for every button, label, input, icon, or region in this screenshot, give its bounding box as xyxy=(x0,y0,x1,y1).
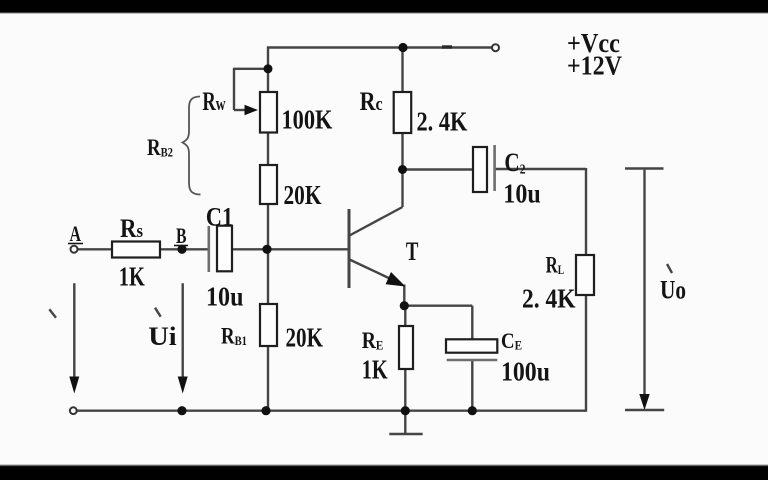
svg-text:Rw: Rw xyxy=(202,87,225,116)
svg-text:2. 4K: 2. 4K xyxy=(417,108,469,137)
svg-text:Ui: Ui xyxy=(148,322,177,351)
svg-text:1K: 1K xyxy=(119,263,145,292)
svg-text:Uo: Uo xyxy=(660,277,686,305)
svg-text:T: T xyxy=(406,237,419,266)
svg-text:10u: 10u xyxy=(503,178,540,209)
svg-text:RB2: RB2 xyxy=(147,134,173,160)
svg-text:20K: 20K xyxy=(286,323,324,353)
svg-text:100K: 100K xyxy=(282,106,334,135)
svg-text:20K: 20K xyxy=(284,181,322,211)
svg-text:10u: 10u xyxy=(206,281,243,312)
svg-text:CE: CE xyxy=(501,330,522,354)
svg-text:C1: C1 xyxy=(206,203,233,232)
svg-text:Rc: Rc xyxy=(360,88,383,116)
svg-text:RL: RL xyxy=(546,253,565,278)
svg-text:C2: C2 xyxy=(504,149,525,178)
svg-text:RB1: RB1 xyxy=(221,323,247,349)
svg-text:100u: 100u xyxy=(501,356,550,387)
svg-text:Rs: Rs xyxy=(120,215,143,244)
svg-text:+12V: +12V xyxy=(567,50,623,81)
svg-text:RE: RE xyxy=(362,328,384,354)
svg-text:2. 4K: 2. 4K xyxy=(522,284,576,314)
svg-text:1K: 1K xyxy=(362,356,388,385)
